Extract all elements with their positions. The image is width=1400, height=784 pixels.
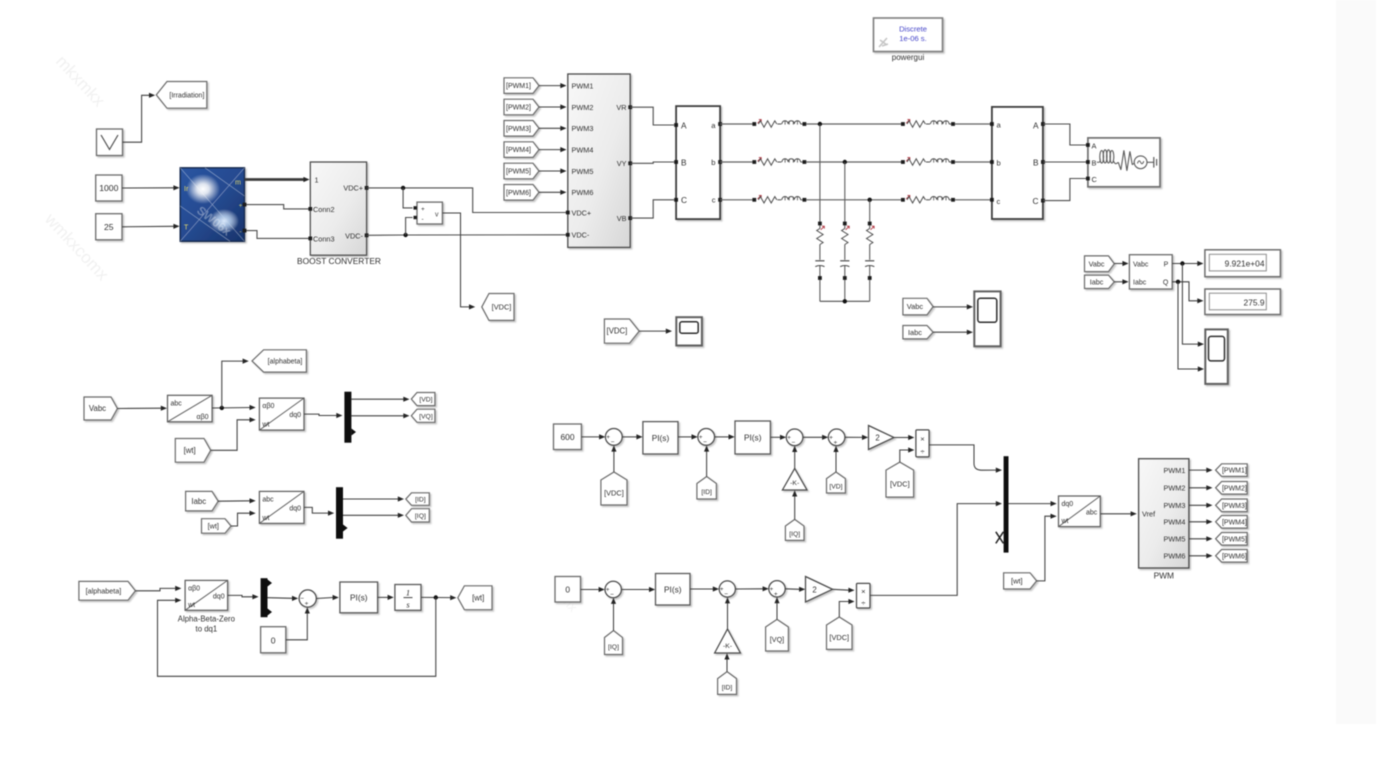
wire Iabc to scope bbox=[933, 330, 973, 335]
goto tag [Irradiation] bbox=[156, 82, 207, 109]
wire PWM5 to inverter bbox=[539, 168, 567, 173]
svg-text:−: − bbox=[611, 439, 615, 446]
wire sum D4 to gain 2 D bbox=[845, 435, 868, 440]
from tag [IQ] under gain D bbox=[785, 519, 804, 540]
svg-text:−: − bbox=[724, 591, 728, 598]
wire 0 to sum PLL bbox=[286, 607, 310, 640]
svg-text:[alphabeta]: [alphabeta] bbox=[86, 586, 122, 595]
svg-text:dq0: dq0 bbox=[1062, 501, 1074, 508]
demux PLL bbox=[261, 578, 272, 617]
svg-text:wt: wt bbox=[261, 422, 269, 429]
sum D4 bbox=[828, 429, 845, 447]
svg-text:2: 2 bbox=[812, 586, 816, 595]
wire dq out to demux PLL bbox=[228, 594, 259, 599]
svg-text:PWM: PWM bbox=[1154, 571, 1174, 581]
wire PWM1 to inverter bbox=[539, 83, 567, 88]
sum D1 bbox=[605, 429, 622, 447]
wire VDC to product E bbox=[839, 599, 854, 617]
powergui label bbox=[892, 53, 925, 62]
svg-text:PWM4: PWM4 bbox=[572, 145, 594, 154]
from tag Vabc row A bbox=[84, 397, 117, 420]
wire phase c segment 1 bbox=[720, 199, 752, 201]
wire product E to mux bbox=[870, 501, 1002, 595]
svg-text:BOOST CONVERTER: BOOST CONVERTER bbox=[297, 256, 381, 266]
from tag [VQ] under sum E3 bbox=[766, 619, 789, 651]
svg-text:[ID]: [ID] bbox=[722, 684, 733, 691]
constant 0 row E bbox=[555, 577, 581, 603]
svg-text:[PWM5]: [PWM5] bbox=[1222, 536, 1247, 543]
scope VDC bbox=[676, 317, 702, 345]
svg-text:[PWM3]: [PWM3] bbox=[1222, 503, 1247, 510]
svg-text:Alpha-Beta-Zero: Alpha-Beta-Zero bbox=[178, 615, 236, 624]
wire -K- to sum E2 bbox=[725, 597, 730, 629]
svg-text:+: + bbox=[606, 587, 610, 594]
svg-text:[VDC]: [VDC] bbox=[829, 633, 849, 642]
svg-text:1e-06 s.: 1e-06 s. bbox=[899, 34, 926, 43]
svg-text:−: − bbox=[610, 592, 614, 599]
svg-text:VDC-: VDC- bbox=[572, 231, 590, 240]
wire VQ to sum E3 bbox=[774, 597, 779, 619]
svg-text:+: + bbox=[305, 601, 309, 608]
wire product D to mux bbox=[929, 445, 1002, 473]
svg-text:25: 25 bbox=[104, 222, 114, 232]
svg-text:PI(s): PI(s) bbox=[664, 584, 682, 594]
svg-text:+: + bbox=[239, 204, 243, 210]
label BOOST CONVERTER bbox=[297, 256, 381, 266]
from tag Iabc power bbox=[1085, 275, 1115, 288]
unconnected port X marker bbox=[996, 532, 1004, 544]
transform block abc to alphabeta0 bbox=[168, 395, 213, 422]
svg-text:v: v bbox=[435, 211, 439, 218]
svg-text:wt: wt bbox=[261, 515, 269, 522]
svg-text:PI(s): PI(s) bbox=[652, 433, 670, 443]
wire wt to dq0-abc block bbox=[1037, 514, 1057, 581]
from tag Vabc scope bbox=[903, 298, 933, 315]
wire alphabeta to ab0dq block bbox=[135, 586, 181, 591]
series RLC branch phase b set 2 bbox=[901, 158, 955, 166]
wire 0 to sum E1 bbox=[581, 587, 605, 592]
transform block dq0 to abc bbox=[1059, 496, 1101, 527]
wire gain 2 to product D bbox=[894, 435, 914, 440]
demux row A bbox=[344, 392, 356, 443]
transform block abc wt to dq0 row B bbox=[259, 491, 304, 523]
subsystem BOOST CONVERTER bbox=[308, 162, 368, 255]
PI controller D2 bbox=[735, 421, 770, 454]
svg-text:C: C bbox=[1092, 175, 1098, 184]
sum D3 bbox=[786, 429, 803, 447]
wire inverter VY to meas B bbox=[630, 162, 674, 163]
svg-text:b: b bbox=[711, 158, 715, 167]
svg-text:0: 0 bbox=[271, 635, 276, 645]
svg-text:[VDC]: [VDC] bbox=[604, 488, 624, 497]
svg-text:PI(s): PI(s) bbox=[350, 592, 368, 602]
PI controller D1 bbox=[643, 422, 678, 454]
junction phase c bbox=[868, 198, 872, 222]
from tag [PWM6] bbox=[504, 185, 539, 201]
wire IQ to -K- D bbox=[792, 490, 797, 519]
svg-text:1: 1 bbox=[315, 176, 319, 185]
svg-text:Ir: Ir bbox=[184, 186, 189, 193]
wire VDC to product D bbox=[900, 447, 915, 462]
svg-text:PWM6: PWM6 bbox=[1163, 552, 1185, 561]
svg-text:÷: ÷ bbox=[920, 447, 924, 456]
powergui block bbox=[874, 18, 943, 52]
svg-text:Vabc: Vabc bbox=[907, 302, 924, 311]
svg-text:−: − bbox=[792, 440, 796, 447]
wire sum E1 to PI E bbox=[621, 587, 655, 592]
svg-text:×: × bbox=[861, 587, 865, 596]
svg-text:VB: VB bbox=[617, 214, 627, 223]
wire PWM4 out bbox=[1189, 519, 1213, 524]
from tag [VDC] under product D bbox=[886, 462, 914, 497]
wire boost VDC+ to inverter VDC+ bbox=[367, 188, 566, 213]
wire PWM2 out bbox=[1189, 485, 1213, 490]
wire PI D2 to sum D3 bbox=[770, 435, 786, 440]
wire dq0 out to demux row B bbox=[304, 507, 334, 515]
gain 2 E bbox=[806, 577, 833, 603]
wire dq0-abc to PWM Vref bbox=[1100, 511, 1137, 516]
integrator 1/s bbox=[395, 585, 421, 611]
product divide D bbox=[916, 430, 929, 457]
wire inverter VB to meas C bbox=[630, 200, 674, 218]
svg-text:+: + bbox=[606, 434, 610, 441]
svg-text:to dq1: to dq1 bbox=[196, 625, 218, 634]
svg-text:A: A bbox=[1033, 120, 1039, 130]
svg-text:[PWM5]: [PWM5] bbox=[506, 169, 531, 176]
svg-text:PWM3: PWM3 bbox=[572, 124, 594, 133]
svg-text:A: A bbox=[681, 120, 687, 130]
svg-text:dq0: dq0 bbox=[213, 593, 225, 600]
svg-text:powergui: powergui bbox=[892, 53, 925, 62]
svg-text:dq0: dq0 bbox=[289, 412, 301, 419]
svg-text:[PWM2]: [PWM2] bbox=[506, 105, 531, 112]
wire sum to PI PLL bbox=[316, 595, 339, 600]
svg-text:PWM5: PWM5 bbox=[1163, 535, 1185, 544]
wire Vabc to scope bbox=[933, 304, 973, 309]
svg-text:Iabc: Iabc bbox=[1133, 279, 1147, 286]
power measurement block bbox=[1129, 255, 1172, 289]
svg-text:[PWM2]: [PWM2] bbox=[1222, 485, 1247, 492]
sum E3 bbox=[769, 581, 785, 598]
svg-text:+: + bbox=[787, 435, 791, 442]
svg-text:αβ0: αβ0 bbox=[262, 403, 274, 410]
series RLC branch phase b set 1 bbox=[752, 158, 806, 166]
from tag Vabc power bbox=[1085, 256, 1115, 272]
wire mux to dq0-abc block bbox=[1009, 501, 1057, 506]
shunt RC branch phase c bbox=[865, 222, 874, 302]
svg-text:wt: wt bbox=[187, 602, 195, 609]
svg-text:[alphabeta]: [alphabeta] bbox=[268, 359, 303, 366]
svg-text:−: − bbox=[703, 439, 707, 446]
svg-text:×: × bbox=[920, 434, 924, 443]
constant 0 PLL bbox=[261, 627, 286, 653]
junction VDC+ node bbox=[401, 186, 413, 208]
wire 25 to PV T bbox=[122, 224, 180, 229]
svg-text:VR: VR bbox=[616, 103, 626, 112]
svg-text:9.921e+04: 9.921e+04 bbox=[1225, 259, 1265, 269]
wire sum D3 to sum D4 bbox=[803, 435, 828, 440]
svg-text:wt: wt bbox=[1061, 518, 1069, 525]
from tag [VDC] under sum D1 bbox=[601, 472, 627, 505]
wire Iabc to dq block bbox=[218, 498, 256, 503]
wire meas2 C to source C bbox=[1043, 179, 1086, 201]
three-phase VI measurement 1 bbox=[674, 106, 722, 219]
wire ID to sum D2 bbox=[704, 445, 709, 476]
from tag [IQ] under sum E1 bbox=[605, 631, 623, 655]
svg-text:-: - bbox=[422, 216, 424, 223]
wire 600 to sum D1 bbox=[581, 434, 605, 439]
goto tag [ID] bbox=[406, 493, 430, 506]
wire VDC to scope2 bbox=[639, 329, 672, 334]
wire phase b segment 1 bbox=[720, 161, 752, 163]
svg-text:[PWM4]: [PWM4] bbox=[506, 147, 531, 154]
svg-text:[wt]: [wt] bbox=[1011, 577, 1023, 586]
wire VDC to sum D1 bbox=[611, 445, 616, 472]
svg-text:[PWM3]: [PWM3] bbox=[506, 126, 531, 133]
series RLC branch phase a set 2 bbox=[901, 120, 955, 128]
svg-text:Vabc: Vabc bbox=[89, 404, 106, 413]
svg-text:c: c bbox=[712, 196, 716, 205]
from tag [wt] row A bbox=[175, 439, 210, 463]
svg-text:[wt]: [wt] bbox=[184, 446, 196, 455]
wire Q to display2 and scope bbox=[1172, 280, 1204, 372]
wire PI to integrator bbox=[378, 595, 394, 600]
goto tag [PWM6] bbox=[1216, 550, 1248, 563]
wire boost VDC- to inverter VDC- bbox=[367, 234, 566, 237]
svg-text:275.9: 275.9 bbox=[1244, 298, 1265, 308]
from tag [VDC] scope bbox=[604, 319, 639, 343]
wire Vabc to power block bbox=[1114, 261, 1128, 266]
svg-text:Vabc: Vabc bbox=[1089, 259, 1105, 268]
svg-text:1: 1 bbox=[406, 588, 410, 598]
svg-text:[IQ]: [IQ] bbox=[789, 531, 800, 538]
wire phase b segment 2 bbox=[806, 161, 901, 163]
junction VDC- node bbox=[403, 218, 412, 238]
series RLC branch phase c set 1 bbox=[752, 195, 806, 203]
shunt RC branch phase a bbox=[815, 222, 824, 302]
svg-text:[IQ]: [IQ] bbox=[415, 513, 426, 520]
wire signalbuilder to Irradiation goto bbox=[123, 93, 156, 143]
from tag Iabc row B bbox=[186, 491, 219, 511]
goto tag [VD] bbox=[411, 393, 435, 406]
thick wire PV m to boost input 1 bbox=[245, 177, 310, 182]
goto tag [PWM3] bbox=[1216, 499, 1248, 512]
PI controller PLL bbox=[340, 582, 378, 613]
wire PI D1 to sum D2 bbox=[678, 434, 698, 439]
svg-text:[wt]: [wt] bbox=[472, 593, 484, 602]
product divide E bbox=[857, 583, 871, 608]
svg-text:[IQ]: [IQ] bbox=[608, 644, 619, 651]
shunt RC branch phase b bbox=[840, 222, 849, 302]
from tag [ID] under sum D2 bbox=[697, 477, 717, 500]
svg-text:[VQ]: [VQ] bbox=[770, 635, 784, 644]
goto tag [VDC] bbox=[482, 294, 514, 321]
svg-text:PWM1: PWM1 bbox=[572, 81, 594, 90]
svg-text:-K-: -K- bbox=[790, 480, 799, 487]
three-phase source block bbox=[1086, 138, 1160, 187]
svg-text:PI(s): PI(s) bbox=[744, 433, 762, 443]
svg-text:Vref: Vref bbox=[1142, 510, 1156, 519]
wire to alphabeta goto and dq block bbox=[212, 359, 256, 411]
junction phase a bbox=[818, 122, 822, 222]
svg-text:PWM5: PWM5 bbox=[572, 167, 594, 176]
svg-text:+: + bbox=[774, 591, 778, 598]
scope PQ bbox=[1205, 329, 1228, 384]
from tag [PWM5] bbox=[504, 163, 539, 179]
svg-text:[wt]: [wt] bbox=[208, 522, 219, 531]
wire dq0 out to demux row A bbox=[304, 413, 343, 418]
goto tag [wt] PLL bbox=[458, 586, 492, 610]
wire ID to -K- E bbox=[724, 653, 729, 671]
svg-text:PWM2: PWM2 bbox=[572, 103, 594, 112]
wire phase a segment 3 bbox=[955, 123, 992, 125]
svg-text:0: 0 bbox=[565, 585, 570, 595]
svg-text:αβ0: αβ0 bbox=[188, 585, 200, 592]
svg-text:PWM4: PWM4 bbox=[1163, 518, 1185, 527]
gain -K- E bbox=[715, 629, 741, 653]
svg-text:+: + bbox=[770, 586, 774, 593]
svg-text:-: - bbox=[240, 230, 242, 236]
svg-text:+: + bbox=[829, 435, 833, 442]
wire meas2 B to source B bbox=[1043, 161, 1086, 163]
svg-text:PWM6: PWM6 bbox=[572, 188, 594, 197]
series RLC branch phase c set 2 bbox=[901, 195, 955, 203]
PV array block bbox=[180, 168, 246, 242]
display 275.9 bbox=[1205, 289, 1281, 315]
svg-text:VDC+: VDC+ bbox=[572, 209, 592, 218]
svg-text:T: T bbox=[184, 225, 189, 232]
label Alpha-Beta-Zero to dq1 bbox=[178, 615, 236, 634]
svg-text:[PWM6]: [PWM6] bbox=[506, 190, 531, 197]
wire wt to dq block row A bbox=[211, 417, 256, 450]
wire phase b segment 3 bbox=[955, 161, 992, 163]
svg-text:[VD]: [VD] bbox=[419, 397, 432, 404]
svg-text:PWM2: PWM2 bbox=[1163, 484, 1185, 493]
svg-text:Iabc: Iabc bbox=[908, 328, 922, 337]
wire wt to dq block row B bbox=[231, 511, 256, 526]
svg-text:abc: abc bbox=[262, 496, 274, 503]
svg-text:Discrete: Discrete bbox=[899, 25, 927, 34]
svg-text:C: C bbox=[1033, 196, 1039, 206]
transform block ab0 wt to dq0 row A bbox=[259, 398, 304, 430]
svg-text:Vabc: Vabc bbox=[1133, 261, 1149, 268]
wire sum E2 to sum E3 bbox=[735, 586, 768, 591]
display 9.921e+04 bbox=[1205, 250, 1281, 277]
svg-text:Q: Q bbox=[1163, 279, 1169, 286]
wire P to display1 and scope bbox=[1172, 261, 1204, 347]
svg-text:[Irradiation]: [Irradiation] bbox=[169, 92, 204, 99]
svg-text:abc: abc bbox=[1086, 509, 1098, 516]
from tag Iabc scope bbox=[903, 326, 933, 339]
sum D2 bbox=[698, 429, 715, 447]
sum E1 bbox=[605, 581, 621, 598]
wire PWM3 out bbox=[1189, 503, 1213, 508]
wire vmeter to goto VDC bbox=[442, 213, 475, 310]
voltage measurement block bbox=[414, 202, 443, 224]
svg-text:[PWM4]: [PWM4] bbox=[1222, 519, 1247, 526]
svg-text:m: m bbox=[235, 180, 241, 187]
mux vector concatenate bbox=[1004, 456, 1009, 552]
goto tag [PWM5] bbox=[1216, 533, 1248, 546]
wire demux to IQ bbox=[343, 513, 404, 518]
three-phase VI measurement 2 bbox=[990, 107, 1045, 219]
svg-text:[VDC]: [VDC] bbox=[607, 327, 628, 336]
wire IQ to sum E1 bbox=[611, 598, 616, 631]
wire demux to sum PLL bbox=[268, 596, 299, 601]
wire phase a segment 1 bbox=[720, 123, 752, 125]
svg-text:600: 600 bbox=[561, 432, 575, 442]
from tag [PWM3] bbox=[504, 121, 539, 137]
svg-text:PWM1: PWM1 bbox=[1163, 466, 1185, 475]
wire Iabc to power block bbox=[1114, 279, 1128, 284]
PI controller E bbox=[656, 574, 691, 606]
goto tag [IQ] bbox=[406, 509, 430, 522]
subsystem PWM bbox=[1139, 459, 1189, 568]
scope Vabc Iabc bbox=[974, 291, 1000, 346]
goto tag [alphabeta] bbox=[252, 350, 306, 372]
svg-text:+: + bbox=[699, 434, 703, 441]
wire sum D2 to PI D2 bbox=[715, 434, 735, 439]
constant 1000 bbox=[96, 175, 122, 201]
svg-text:1000: 1000 bbox=[99, 183, 118, 193]
wire PWM2 to inverter bbox=[539, 104, 567, 109]
junction phase b bbox=[843, 160, 847, 222]
wire PWM5 out bbox=[1189, 536, 1213, 541]
wire PWM1 out bbox=[1189, 468, 1213, 473]
svg-text:Iabc: Iabc bbox=[1090, 277, 1104, 286]
wire meas2 A to source A bbox=[1043, 124, 1086, 145]
wire demux to VQ bbox=[351, 413, 409, 418]
svg-text:[VQ]: [VQ] bbox=[419, 413, 433, 420]
svg-text:[VD]: [VD] bbox=[829, 484, 842, 491]
svg-text:c: c bbox=[997, 197, 1001, 206]
svg-text:-K-: -K- bbox=[723, 643, 732, 650]
svg-text:VDC+: VDC+ bbox=[343, 184, 363, 193]
from tag [PWM2] bbox=[504, 99, 539, 115]
scrollbar strip right bbox=[1336, 0, 1376, 724]
svg-text:αβ0: αβ0 bbox=[197, 414, 209, 421]
from tag [PWM4] bbox=[504, 142, 539, 158]
wire integrator to wt goto bbox=[421, 595, 456, 600]
wire Vabc to abc-ab0 block bbox=[117, 406, 167, 411]
series RLC branch phase a set 1 bbox=[752, 120, 806, 128]
svg-text:[ID]: [ID] bbox=[415, 497, 426, 504]
svg-text:+: + bbox=[834, 440, 838, 447]
from tag [VD] under sum D4 bbox=[827, 472, 846, 493]
wire PWM6 to inverter bbox=[539, 190, 567, 195]
svg-text:b: b bbox=[997, 158, 1001, 167]
from tag [ID] under gain E bbox=[718, 672, 737, 695]
svg-text:Iabc: Iabc bbox=[191, 497, 206, 506]
wire PWM4 to inverter bbox=[539, 147, 567, 152]
svg-text:B: B bbox=[1092, 158, 1097, 167]
goto tag [PWM4] bbox=[1216, 516, 1248, 529]
svg-text:[ID]: [ID] bbox=[701, 489, 712, 496]
wire demux to ID bbox=[343, 496, 404, 501]
wire phase a segment 2 bbox=[806, 123, 901, 125]
svg-text:÷: ÷ bbox=[861, 598, 865, 607]
svg-text:−: − bbox=[300, 596, 304, 603]
goto tag [VQ] bbox=[411, 409, 435, 422]
wire phase c segment 2 bbox=[806, 199, 901, 201]
wire 1000 to PV Ir bbox=[122, 185, 180, 190]
wire VD to sum D4 bbox=[833, 446, 838, 472]
wire phase c segment 3 bbox=[955, 199, 992, 201]
wire PV plus to boost Conn2 bbox=[246, 205, 308, 209]
gain -K- D bbox=[782, 468, 807, 490]
svg-text:VDC-: VDC- bbox=[345, 231, 363, 240]
wire gain 2 E to product E bbox=[833, 588, 855, 593]
